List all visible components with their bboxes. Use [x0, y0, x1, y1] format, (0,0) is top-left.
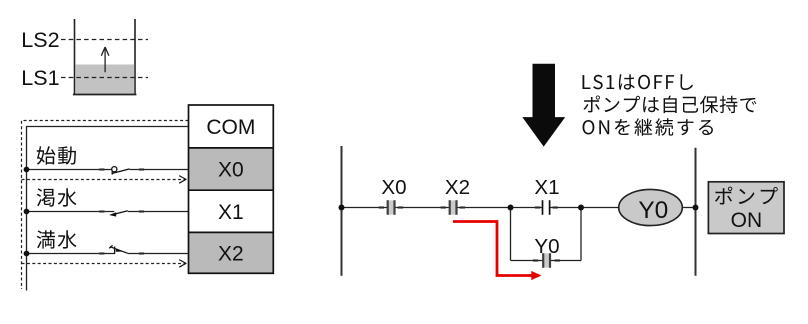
- PLC input terminal block: [189, 105, 274, 273]
- junction dots: [339, 205, 699, 211]
- limit switch contact 満水 (NC, arm above): [109, 245, 128, 254]
- dashed common flow line (vertical + to COM): [22, 121, 189, 290]
- svg-text:X1: X1: [218, 201, 244, 224]
- self-hold branch: [511, 208, 582, 261]
- box text ポンプ: [715, 187, 778, 205]
- annotation line 3: ONを継続する: [583, 118, 713, 136]
- wire 始動 to X0: [27, 169, 189, 171]
- label 渇水: [37, 188, 77, 206]
- contact Y0 (closed, highlighted): [543, 253, 550, 268]
- wire 満水 to X2: [27, 253, 189, 255]
- LS2 level dashed line: [61, 39, 148, 41]
- output box ポンプON: [708, 182, 784, 234]
- annotation line 1: LS1はOFFし: [583, 74, 694, 90]
- dashed flow arrow into X0: [22, 176, 187, 184]
- svg-text:LS1: LS1: [21, 66, 59, 90]
- tank water fill: [75, 65, 134, 95]
- svg-text:LS2: LS2: [21, 28, 59, 52]
- rung wire: [342, 207, 696, 209]
- red self-hold flow arrow: [453, 222, 542, 281]
- contact X2 (closed, highlighted): [450, 200, 457, 215]
- solid common wire (vertical bus + to COM): [27, 127, 189, 291]
- annotation line 2: ポンプは自己保持で: [584, 96, 757, 114]
- tank wall left: [74, 19, 76, 95]
- svg-text:X0: X0: [381, 176, 406, 199]
- wire ticks: [379, 208, 560, 261]
- tank bottom: [73, 94, 136, 96]
- big black down arrow: [522, 64, 565, 147]
- pushbutton contact 始動 (NO): [112, 167, 130, 175]
- label 始動: [37, 146, 76, 165]
- svg-text:Y0: Y0: [638, 197, 668, 224]
- contact X1 (open): [543, 200, 550, 215]
- svg-text:Y0: Y0: [534, 235, 559, 258]
- contact X0 (closed, highlighted): [388, 200, 395, 215]
- svg-text:COM: COM: [206, 116, 255, 139]
- ladder right rail: [695, 148, 697, 276]
- svg-text:X2: X2: [218, 243, 244, 266]
- svg-text:X0: X0: [218, 159, 244, 182]
- svg-text:ON: ON: [731, 209, 763, 232]
- water rising arrow: [101, 47, 109, 72]
- LS1 level dashed line: [61, 77, 148, 79]
- label 満水: [37, 230, 77, 248]
- dashed flow arrow into X2: [22, 260, 187, 268]
- tank wall right: [134, 19, 136, 95]
- wire 渇水 to X1: [27, 211, 189, 213]
- svg-text:X2: X2: [445, 176, 470, 199]
- coil Y0: [619, 189, 683, 225]
- limit switch contact 渇水 (NC, arm below): [109, 211, 128, 217]
- ladder left rail: [341, 146, 343, 276]
- svg-text:X1: X1: [534, 176, 559, 199]
- junction dots on common bus: [24, 167, 30, 257]
